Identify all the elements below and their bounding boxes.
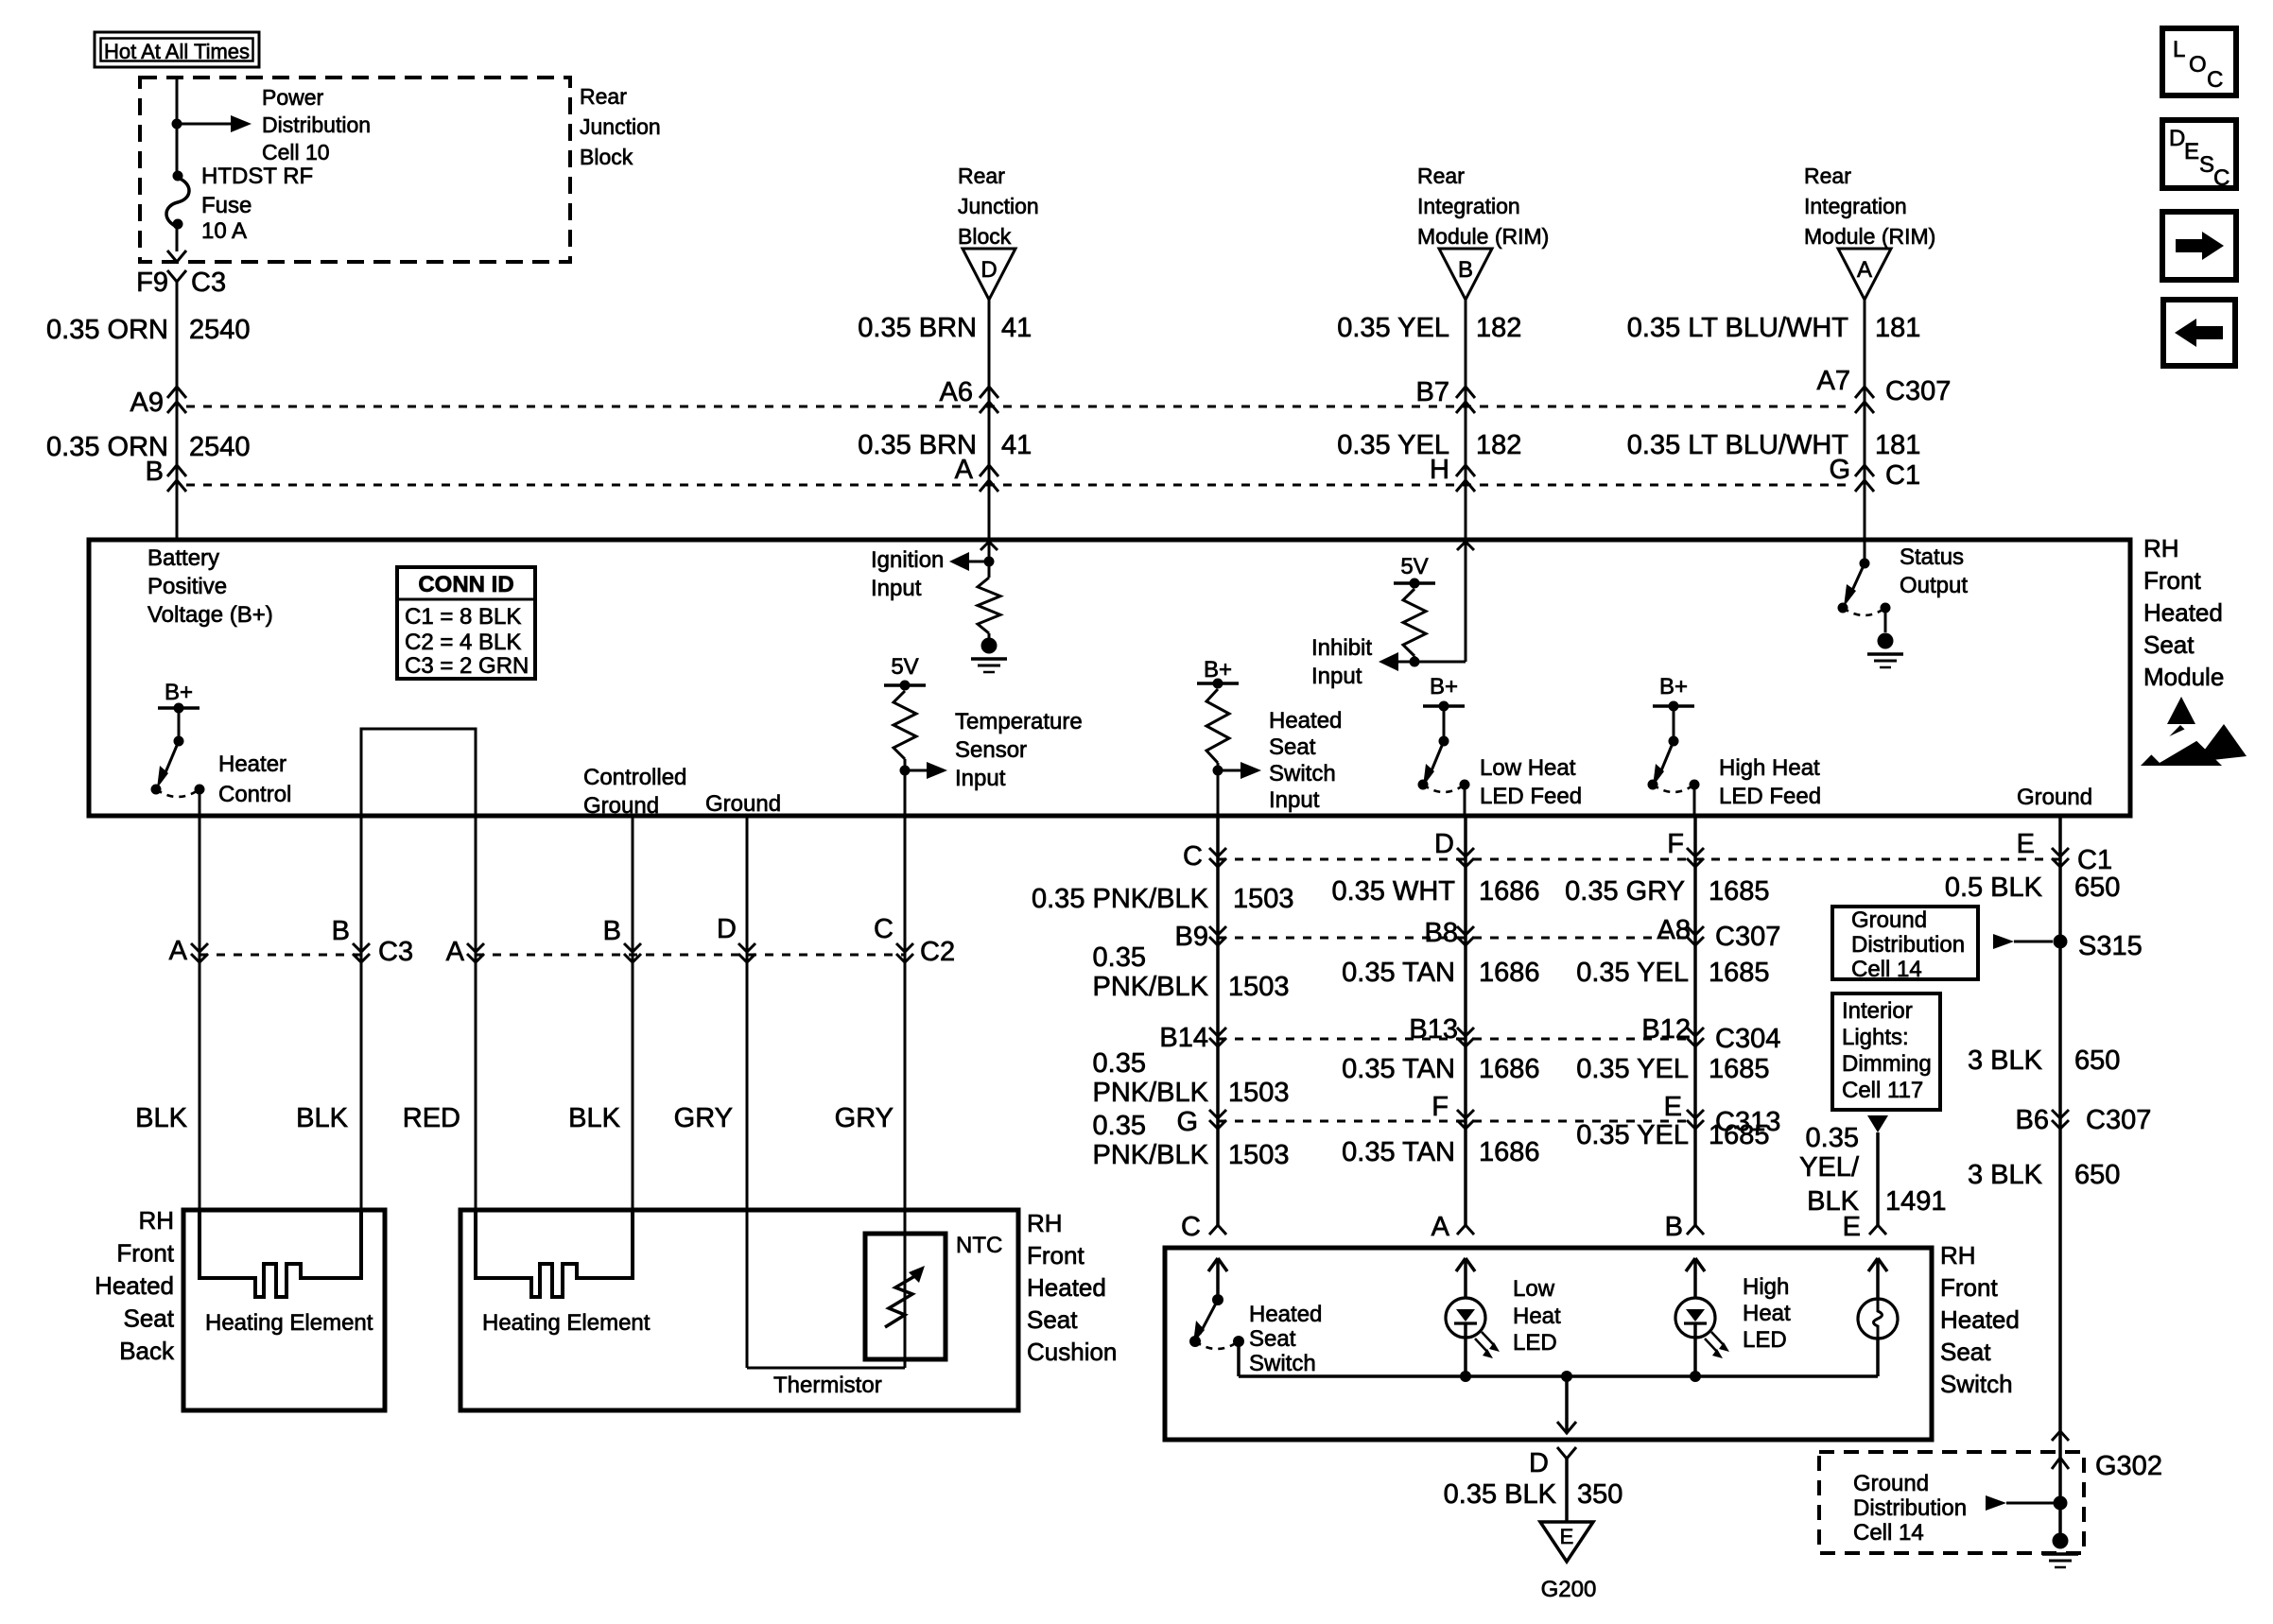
svg-text:Heat: Heat xyxy=(1743,1301,1791,1326)
svg-text:RH: RH xyxy=(2143,534,2179,562)
svg-text:41: 41 xyxy=(1001,430,1032,460)
svg-text:C1: C1 xyxy=(2077,845,2112,875)
svg-text:B: B xyxy=(1665,1212,1683,1242)
svg-text:2540: 2540 xyxy=(189,315,251,345)
svg-text:Seat: Seat xyxy=(124,1304,175,1333)
svg-text:Junction: Junction xyxy=(958,194,1039,218)
svg-text:0.35 YEL: 0.35 YEL xyxy=(1576,1054,1689,1084)
svg-text:A6: A6 xyxy=(940,377,973,407)
svg-text:PNK/BLK: PNK/BLK xyxy=(1093,1078,1209,1108)
svg-text:PNK/BLK: PNK/BLK xyxy=(1093,1140,1209,1170)
svg-text:GRY: GRY xyxy=(835,1103,894,1133)
svg-text:Heated: Heated xyxy=(1940,1305,2020,1334)
svg-text:G: G xyxy=(1176,1107,1198,1137)
svg-text:Seat: Seat xyxy=(1249,1326,1296,1352)
svg-text:1686: 1686 xyxy=(1479,958,1540,988)
svg-text:C307: C307 xyxy=(2086,1105,2151,1135)
svg-text:Input: Input xyxy=(1269,787,1320,813)
svg-text:S315: S315 xyxy=(2078,931,2143,961)
svg-text:C3 = 2 GRN: C3 = 2 GRN xyxy=(405,653,529,679)
svg-text:Module: Module xyxy=(2143,663,2224,691)
svg-text:Heated: Heated xyxy=(1269,708,1342,734)
svg-text:Temperature: Temperature xyxy=(955,709,1083,734)
svg-text:E: E xyxy=(2017,829,2035,859)
svg-text:RH: RH xyxy=(1027,1209,1063,1237)
svg-text:C3: C3 xyxy=(191,268,226,298)
svg-text:D: D xyxy=(2169,126,2185,151)
svg-text:Voltage (B+): Voltage (B+) xyxy=(147,602,273,628)
svg-text:0.35 PNK/BLK: 0.35 PNK/BLK xyxy=(1032,884,1209,914)
svg-text:350: 350 xyxy=(1577,1479,1622,1510)
svg-text:0.35 GRY: 0.35 GRY xyxy=(1565,876,1685,907)
svg-text:5V: 5V xyxy=(891,654,918,680)
svg-text:B+: B+ xyxy=(1659,674,1688,700)
svg-text:BLK: BLK xyxy=(568,1103,620,1133)
svg-text:182: 182 xyxy=(1476,313,1521,343)
svg-text:A: A xyxy=(955,455,974,485)
svg-text:Ground: Ground xyxy=(2017,785,2092,810)
svg-text:F: F xyxy=(1667,829,1684,859)
svg-text:1503: 1503 xyxy=(1228,972,1290,1002)
svg-text:Lights:: Lights: xyxy=(1842,1025,1909,1050)
svg-text:1685: 1685 xyxy=(1709,876,1770,907)
svg-text:Ignition: Ignition xyxy=(871,547,944,573)
svg-text:0.35: 0.35 xyxy=(1806,1123,1859,1153)
svg-text:Cushion: Cushion xyxy=(1027,1338,1117,1366)
svg-text:Front: Front xyxy=(2143,566,2201,595)
svg-text:Cell 14: Cell 14 xyxy=(1853,1520,1924,1546)
svg-text:Block: Block xyxy=(958,224,1012,249)
svg-text:Switch: Switch xyxy=(1940,1370,2013,1398)
svg-text:B: B xyxy=(332,916,350,946)
svg-text:B: B xyxy=(603,916,621,946)
svg-text:Cell 14: Cell 14 xyxy=(1851,957,1922,982)
svg-text:S: S xyxy=(2199,152,2214,178)
svg-text:A9: A9 xyxy=(130,388,164,418)
svg-text:E: E xyxy=(1843,1212,1861,1242)
svg-text:PNK/BLK: PNK/BLK xyxy=(1093,972,1209,1002)
svg-text:B8: B8 xyxy=(1425,918,1458,948)
svg-text:0.35 BLK: 0.35 BLK xyxy=(1444,1479,1557,1510)
svg-text:Ground: Ground xyxy=(705,791,781,817)
svg-text:Interior: Interior xyxy=(1842,998,1913,1024)
svg-text:C304: C304 xyxy=(1715,1024,1780,1054)
svg-text:LED: LED xyxy=(1743,1327,1787,1353)
svg-text:1491: 1491 xyxy=(1885,1186,1947,1217)
svg-text:2540: 2540 xyxy=(189,432,251,462)
svg-text:Status: Status xyxy=(1900,544,1964,570)
svg-text:Back: Back xyxy=(119,1337,175,1365)
svg-text:Ground: Ground xyxy=(1853,1471,1929,1496)
svg-text:0.5 BLK: 0.5 BLK xyxy=(1945,872,2043,903)
svg-text:Input: Input xyxy=(1311,664,1362,689)
svg-text:D: D xyxy=(717,914,737,944)
svg-text:Heated: Heated xyxy=(1027,1273,1106,1302)
svg-text:Rear: Rear xyxy=(1804,164,1851,188)
svg-text:Hot At All Times: Hot At All Times xyxy=(104,40,250,63)
svg-text:181: 181 xyxy=(1875,313,1920,343)
svg-text:1686: 1686 xyxy=(1479,1137,1540,1167)
svg-text:D: D xyxy=(980,257,997,283)
svg-text:Ground: Ground xyxy=(1851,907,1927,933)
svg-text:GRY: GRY xyxy=(674,1103,733,1133)
svg-text:Switch: Switch xyxy=(1249,1351,1316,1376)
svg-text:182: 182 xyxy=(1476,430,1521,460)
svg-text:Cell 117: Cell 117 xyxy=(1842,1078,1923,1103)
svg-text:C1: C1 xyxy=(1885,460,1920,491)
svg-text:RH: RH xyxy=(1940,1241,1976,1270)
svg-text:C2 = 4 BLK: C2 = 4 BLK xyxy=(405,630,521,655)
svg-text:B13: B13 xyxy=(1409,1014,1458,1045)
svg-text:0.35: 0.35 xyxy=(1093,1111,1146,1141)
svg-text:0.35: 0.35 xyxy=(1093,942,1146,973)
svg-text:C: C xyxy=(2207,67,2223,93)
svg-text:C: C xyxy=(2213,165,2230,191)
svg-text:Input: Input xyxy=(871,576,922,601)
svg-text:CONN ID: CONN ID xyxy=(418,572,513,597)
svg-text:0.35 ORN: 0.35 ORN xyxy=(46,315,168,345)
svg-text:Positive: Positive xyxy=(147,574,227,599)
svg-text:A: A xyxy=(1857,257,1872,283)
svg-text:Front: Front xyxy=(1027,1241,1084,1270)
svg-text:Low: Low xyxy=(1513,1276,1555,1302)
svg-text:A7: A7 xyxy=(1817,366,1850,396)
svg-text:Rear: Rear xyxy=(580,84,627,109)
svg-text:O: O xyxy=(2189,52,2207,78)
svg-text:Cell 10: Cell 10 xyxy=(262,140,330,164)
svg-text:Inhibit: Inhibit xyxy=(1311,635,1372,661)
svg-text:Sensor: Sensor xyxy=(955,737,1027,763)
svg-text:Input: Input xyxy=(955,766,1006,791)
svg-text:L: L xyxy=(2173,37,2185,62)
svg-text:E: E xyxy=(1664,1092,1682,1122)
svg-text:A8: A8 xyxy=(1657,915,1691,945)
svg-text:RED: RED xyxy=(403,1103,460,1133)
svg-text:G302: G302 xyxy=(2095,1451,2162,1481)
svg-text:Distribution: Distribution xyxy=(1853,1495,1967,1521)
svg-text:Controlled: Controlled xyxy=(583,765,686,790)
svg-text:Fuse: Fuse xyxy=(201,193,252,218)
svg-text:C307: C307 xyxy=(1885,376,1951,406)
svg-text:E: E xyxy=(2184,139,2199,164)
svg-text:Seat: Seat xyxy=(1940,1338,1991,1366)
svg-text:Ground: Ground xyxy=(583,793,659,819)
svg-text:Heat: Heat xyxy=(1513,1304,1561,1329)
svg-text:B: B xyxy=(146,457,164,487)
svg-text:G: G xyxy=(1829,455,1850,485)
svg-text:Distribution: Distribution xyxy=(262,112,371,137)
svg-text:Seat: Seat xyxy=(1269,734,1316,760)
svg-text:B7: B7 xyxy=(1416,377,1449,407)
svg-text:0.35 BRN: 0.35 BRN xyxy=(858,313,977,343)
svg-text:Module (RIM): Module (RIM) xyxy=(1417,224,1549,249)
svg-text:B9: B9 xyxy=(1175,922,1208,952)
svg-text:Rear: Rear xyxy=(1417,164,1465,188)
svg-text:0.35 YEL: 0.35 YEL xyxy=(1576,1120,1689,1150)
svg-text:1685: 1685 xyxy=(1709,1054,1770,1084)
svg-text:Block: Block xyxy=(580,145,633,169)
svg-text:C: C xyxy=(874,914,894,944)
svg-text:BLK: BLK xyxy=(296,1103,348,1133)
svg-text:Battery: Battery xyxy=(147,545,219,571)
svg-text:Integration: Integration xyxy=(1804,194,1907,218)
svg-text:E: E xyxy=(1560,1525,1574,1548)
svg-text:C1 = 8 BLK: C1 = 8 BLK xyxy=(405,604,521,630)
svg-text:5V: 5V xyxy=(1400,554,1428,579)
svg-text:0.35: 0.35 xyxy=(1093,1048,1146,1079)
svg-text:Thermistor: Thermistor xyxy=(773,1373,882,1398)
svg-text:Distribution: Distribution xyxy=(1851,932,1965,958)
svg-text:F: F xyxy=(1431,1092,1449,1122)
svg-text:Module (RIM): Module (RIM) xyxy=(1804,224,1935,249)
svg-text:B14: B14 xyxy=(1159,1023,1208,1053)
svg-text:Heated: Heated xyxy=(95,1271,174,1300)
svg-text:C: C xyxy=(1181,1212,1201,1242)
svg-text:3 BLK: 3 BLK xyxy=(1968,1160,2043,1190)
svg-text:D: D xyxy=(1434,829,1454,859)
svg-text:0.35 WHT: 0.35 WHT xyxy=(1331,876,1455,907)
svg-text:Switch: Switch xyxy=(1269,761,1336,786)
svg-text:F9: F9 xyxy=(136,268,168,298)
svg-text:B: B xyxy=(1458,257,1473,283)
svg-text:650: 650 xyxy=(2074,1160,2120,1190)
svg-text:D: D xyxy=(1529,1448,1549,1478)
svg-text:Output: Output xyxy=(1900,573,1968,598)
svg-text:1503: 1503 xyxy=(1228,1078,1290,1108)
svg-text:Junction: Junction xyxy=(580,114,661,139)
svg-text:0.35 YEL: 0.35 YEL xyxy=(1576,958,1689,988)
svg-text:0.35 TAN: 0.35 TAN xyxy=(1342,1137,1455,1167)
svg-text:41: 41 xyxy=(1001,313,1032,343)
svg-text:G200: G200 xyxy=(1541,1577,1597,1602)
svg-text:LED: LED xyxy=(1513,1330,1557,1356)
svg-text:Heated: Heated xyxy=(1249,1302,1322,1327)
svg-text:A: A xyxy=(1431,1212,1450,1242)
svg-text:0.35 LT BLU/WHT: 0.35 LT BLU/WHT xyxy=(1627,313,1849,343)
svg-text:650: 650 xyxy=(2074,872,2120,903)
svg-text:B+: B+ xyxy=(165,680,193,705)
svg-text:High: High xyxy=(1743,1274,1789,1300)
svg-text:LED Feed: LED Feed xyxy=(1719,784,1821,809)
svg-text:650: 650 xyxy=(2074,1045,2120,1076)
svg-text:10 A: 10 A xyxy=(201,218,247,244)
svg-text:0.35 YEL: 0.35 YEL xyxy=(1337,313,1449,343)
svg-text:H: H xyxy=(1430,455,1449,485)
svg-text:YEL/: YEL/ xyxy=(1799,1152,1860,1183)
svg-text:0.35 TAN: 0.35 TAN xyxy=(1342,1054,1455,1084)
svg-text:Control: Control xyxy=(218,782,291,807)
svg-text:C: C xyxy=(1183,841,1203,872)
svg-text:3 BLK: 3 BLK xyxy=(1968,1045,2043,1076)
svg-text:Dimming: Dimming xyxy=(1842,1051,1932,1077)
svg-text:BLK: BLK xyxy=(135,1103,187,1133)
svg-text:Heating Element: Heating Element xyxy=(205,1310,373,1336)
svg-text:181: 181 xyxy=(1875,430,1920,460)
svg-text:C3: C3 xyxy=(378,937,413,967)
svg-text:Rear: Rear xyxy=(958,164,1005,188)
svg-text:LED Feed: LED Feed xyxy=(1480,784,1582,809)
svg-text:1685: 1685 xyxy=(1709,958,1770,988)
svg-text:C307: C307 xyxy=(1715,922,1780,952)
svg-text:Seat: Seat xyxy=(1027,1305,1078,1334)
svg-text:1686: 1686 xyxy=(1479,1054,1540,1084)
svg-text:Low Heat: Low Heat xyxy=(1480,755,1576,781)
svg-text:Heater: Heater xyxy=(218,752,286,777)
svg-text:0.35 LT BLU/WHT: 0.35 LT BLU/WHT xyxy=(1627,430,1849,460)
svg-text:A: A xyxy=(446,937,465,967)
svg-text:Front: Front xyxy=(1940,1273,1998,1302)
svg-text:Heating Element: Heating Element xyxy=(482,1310,651,1336)
svg-text:A: A xyxy=(169,936,188,966)
svg-text:Seat: Seat xyxy=(2143,631,2195,659)
svg-text:RH: RH xyxy=(138,1206,174,1235)
svg-text:1503: 1503 xyxy=(1233,884,1294,914)
svg-text:0.35 TAN: 0.35 TAN xyxy=(1342,958,1455,988)
svg-text:Heated: Heated xyxy=(2143,598,2223,627)
svg-text:1685: 1685 xyxy=(1709,1120,1770,1150)
svg-text:1503: 1503 xyxy=(1228,1140,1290,1170)
svg-text:B+: B+ xyxy=(1430,674,1458,700)
svg-text:High Heat: High Heat xyxy=(1719,755,1820,781)
svg-text:NTC: NTC xyxy=(956,1233,1002,1258)
svg-text:Front: Front xyxy=(116,1239,174,1268)
svg-text:C2: C2 xyxy=(920,937,955,967)
svg-text:1686: 1686 xyxy=(1479,876,1540,907)
svg-text:Power: Power xyxy=(262,85,324,110)
svg-text:HTDST RF: HTDST RF xyxy=(201,164,313,189)
svg-text:B6: B6 xyxy=(2016,1105,2049,1135)
svg-text:Integration: Integration xyxy=(1417,194,1520,218)
